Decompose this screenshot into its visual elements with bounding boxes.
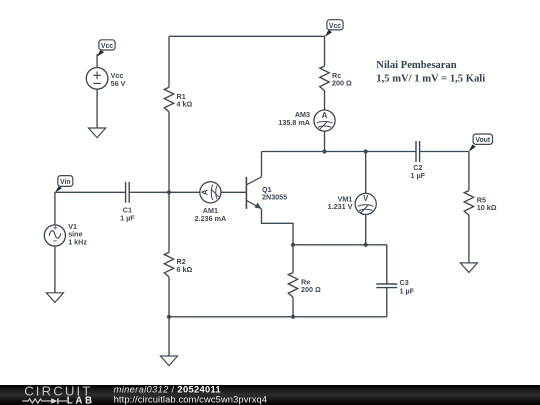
wire (262, 209, 294, 245)
wire (169, 316, 387, 318)
resistor Rc (320, 66, 352, 90)
wire (324, 36, 326, 66)
node (364, 149, 368, 153)
wire (96, 89, 98, 128)
node (291, 243, 295, 247)
resistor Re (288, 273, 321, 298)
svg-text:http://circuitlab.com/cwc5wn3p: http://circuitlab.com/cwc5wn3pvrxq4 (114, 393, 268, 404)
net label Vout (469, 134, 493, 152)
node (322, 149, 326, 153)
wire (262, 151, 417, 153)
node (167, 190, 171, 194)
net label Vcc (left) (97, 40, 115, 57)
resistor R2 (164, 252, 192, 277)
node (291, 315, 295, 319)
annotation text (376, 60, 485, 84)
wire (168, 36, 170, 87)
node (364, 243, 368, 247)
ground (160, 356, 177, 366)
capacitor C1 (120, 182, 135, 223)
wire (168, 112, 170, 193)
label V1 sine 1 kHz (68, 222, 87, 247)
wire (468, 215, 470, 263)
voltage source Vcc (86, 68, 108, 90)
svg-text:LAB: LAB (67, 396, 95, 405)
capacitor C3 (376, 278, 414, 295)
wire (221, 191, 246, 193)
ammeter AM1 (195, 182, 227, 223)
wire (365, 152, 367, 194)
wire (468, 152, 470, 191)
wire (420, 151, 469, 153)
voltage source V1 (44, 225, 65, 246)
wire (168, 192, 170, 252)
wire (168, 277, 170, 317)
ground (46, 293, 63, 303)
ground (460, 263, 477, 273)
resistor R1 (164, 87, 192, 111)
wire (96, 54, 98, 68)
voltmeter VM1 (328, 193, 377, 214)
wire (169, 35, 325, 37)
net label Vin (55, 176, 73, 193)
footer credit line (114, 385, 268, 405)
wire (54, 192, 56, 225)
wire (54, 247, 56, 293)
capacitor C2 (411, 141, 426, 180)
wire (292, 297, 294, 317)
wire (324, 131, 326, 151)
resistor R5 (464, 191, 497, 216)
wire (386, 288, 388, 317)
node (167, 315, 171, 319)
wire (261, 152, 263, 177)
ammeter AM3 (278, 110, 335, 131)
wire (129, 191, 200, 193)
wire (386, 245, 388, 284)
ground (89, 128, 106, 138)
wire (324, 91, 326, 110)
CircuitLab logo (22, 384, 94, 405)
wire (292, 245, 294, 273)
label Vcc 56 V (111, 71, 126, 88)
footer bar (0, 385, 540, 405)
wire (293, 244, 387, 246)
wire (168, 317, 170, 356)
net label Vcc (top) (325, 20, 343, 37)
wire (365, 215, 367, 245)
wire (55, 191, 126, 193)
transistor Q1 (246, 177, 287, 209)
